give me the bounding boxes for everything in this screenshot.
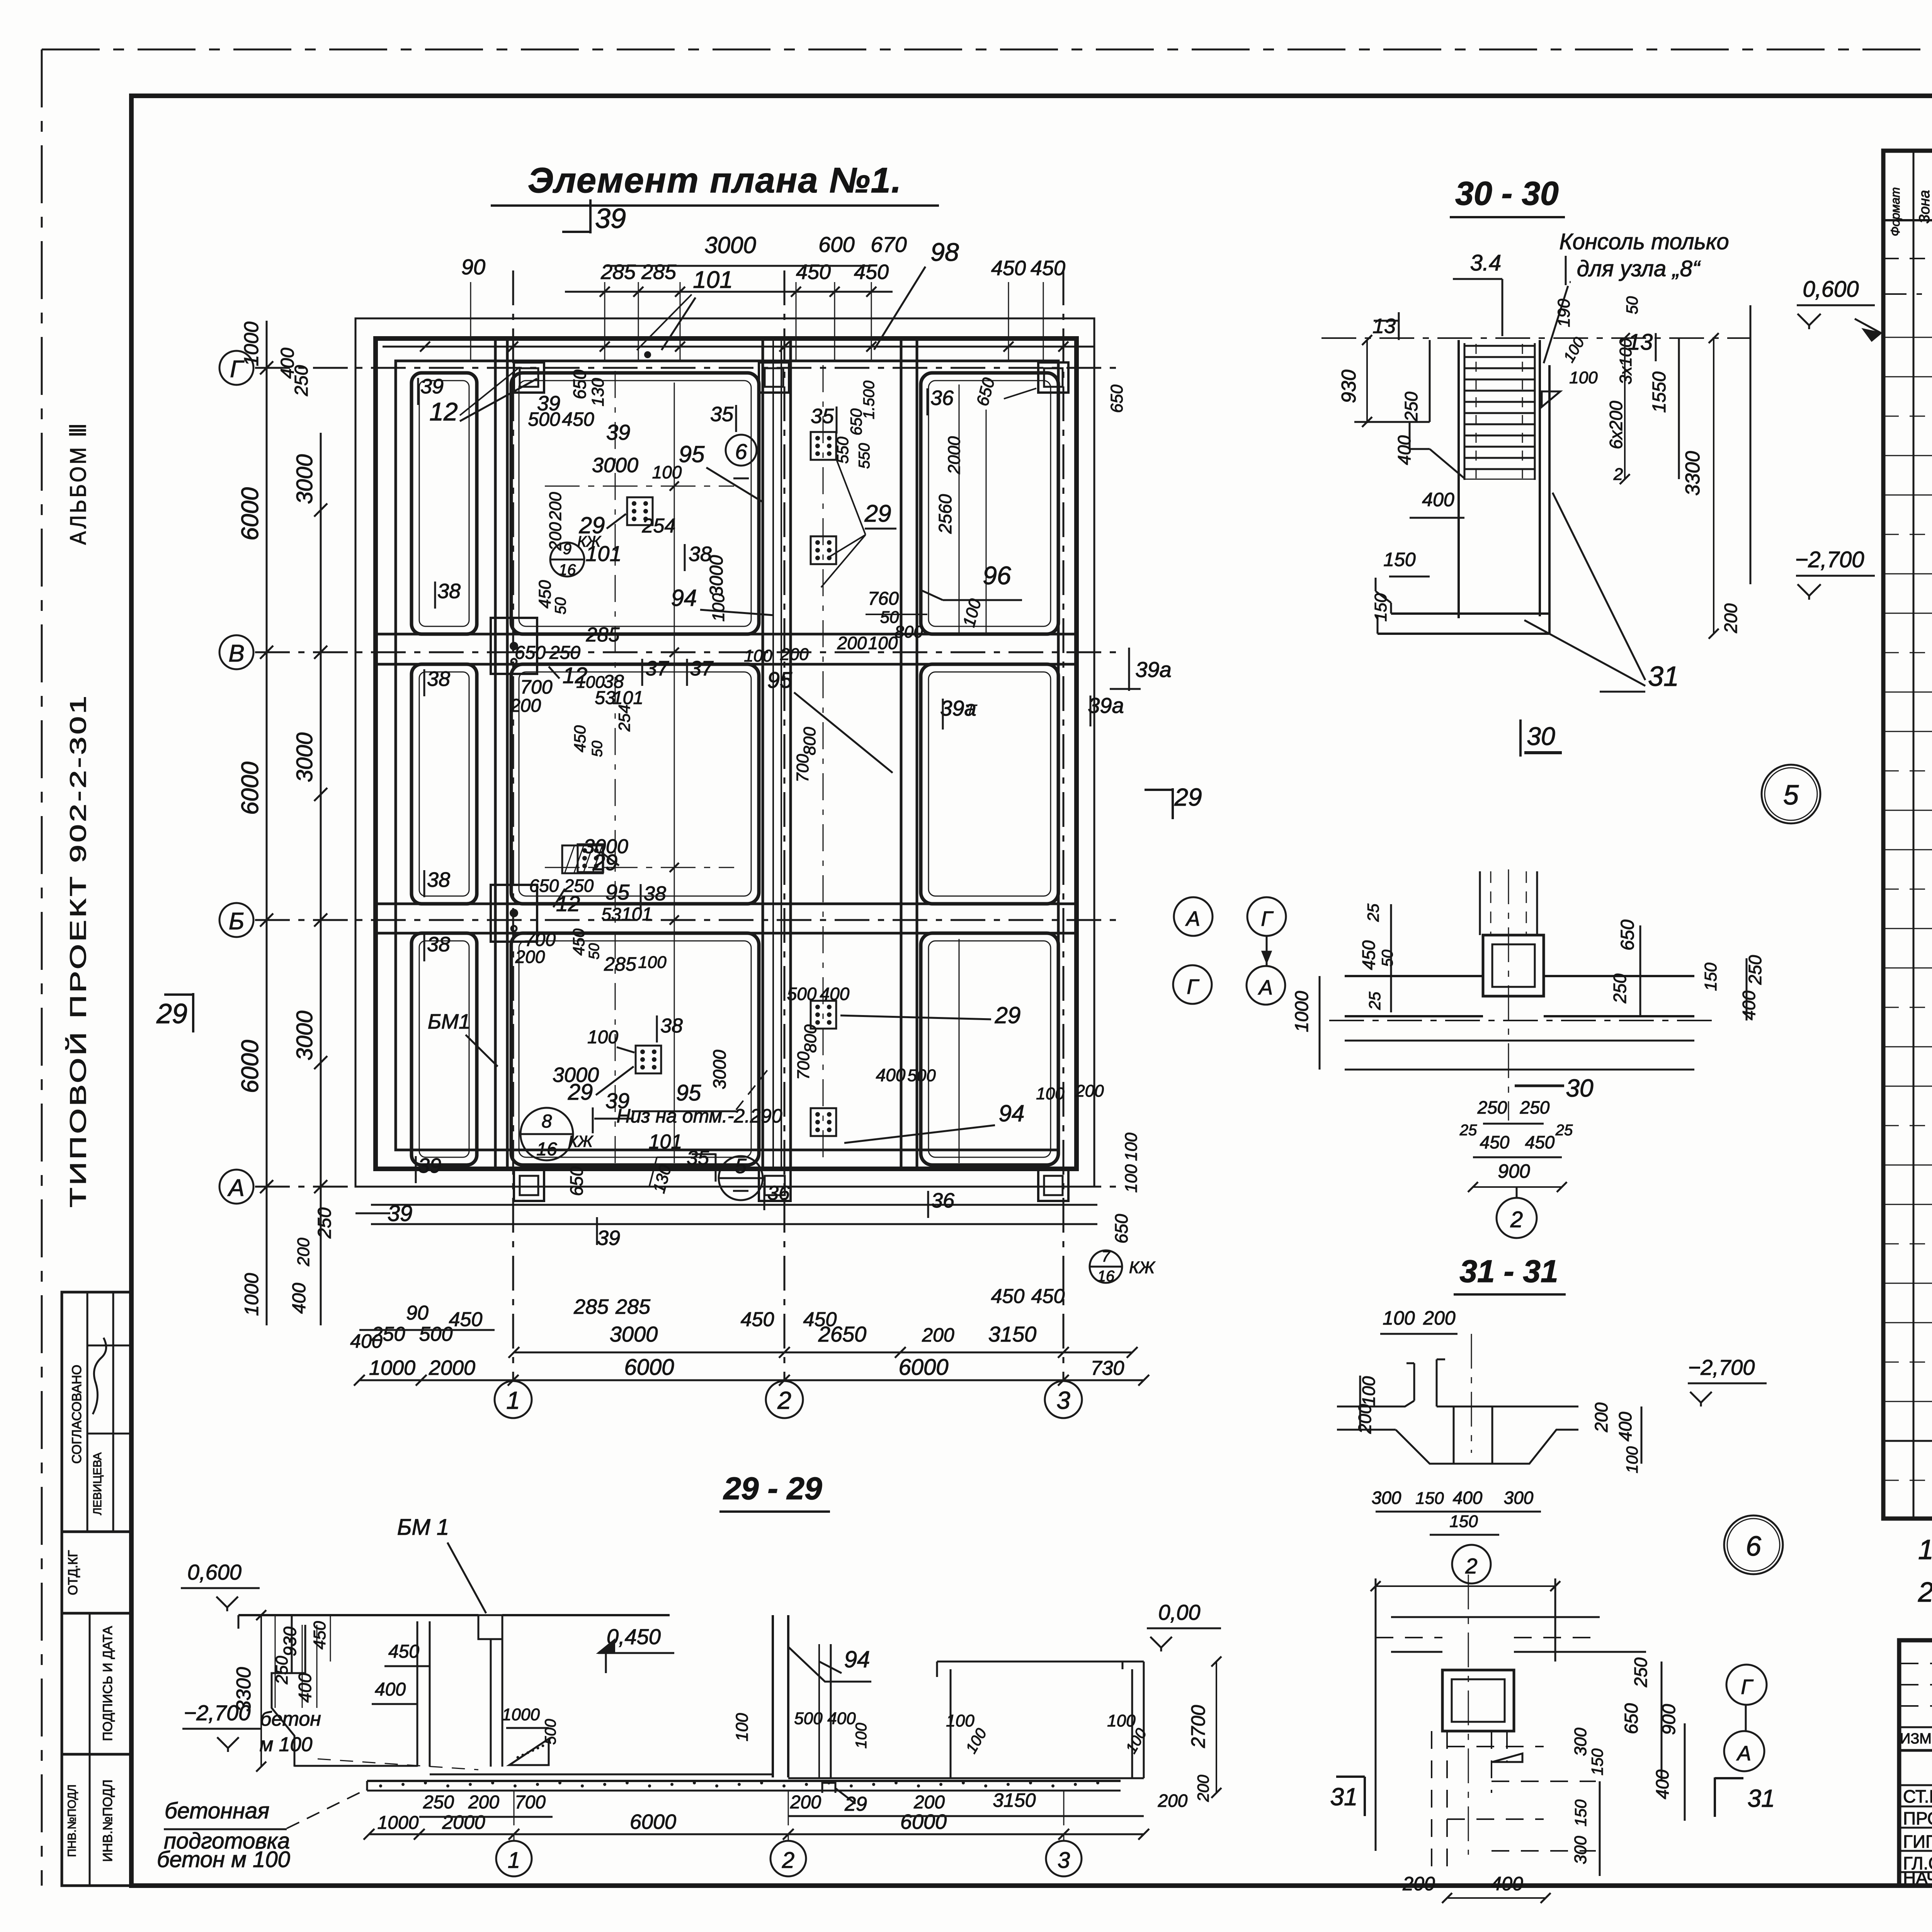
svg-text:190: 190 — [1554, 299, 1573, 327]
svg-text:30 - 30: 30 - 30 — [1455, 175, 1559, 212]
svg-text:285: 285 — [573, 1295, 609, 1318]
svg-text:650: 650 — [1111, 1214, 1131, 1243]
svg-text:200: 200 — [1721, 603, 1741, 633]
svg-text:38: 38 — [660, 1015, 683, 1037]
svg-text:6000: 6000 — [898, 1355, 948, 1380]
sidebar stamp boxes — [62, 1292, 132, 1532]
svg-text:200: 200 — [922, 1324, 954, 1346]
svg-text:450: 450 — [449, 1308, 483, 1331]
svg-text:150: 150 — [1383, 549, 1416, 570]
svg-text:450: 450 — [1480, 1132, 1510, 1152]
svg-text:50: 50 — [1623, 296, 1641, 314]
svg-text:31: 31 — [1648, 661, 1679, 692]
svg-text:⊤: ⊤ — [963, 702, 978, 719]
svg-text:250: 250 — [423, 1792, 454, 1813]
svg-text:2: 2 — [777, 1386, 791, 1414]
dirt hatch triangle — [509, 1739, 549, 1765]
svg-text:200: 200 — [1402, 1873, 1435, 1895]
svg-text:200: 200 — [546, 492, 565, 521]
svg-text:100: 100 — [853, 1723, 870, 1749]
svg-text:650: 650 — [570, 369, 590, 399]
section 30-30 body — [1321, 337, 1750, 339]
svg-text:31 - 31: 31 - 31 — [1459, 1254, 1558, 1289]
svg-text:101: 101 — [693, 267, 733, 293]
svg-text:А: А — [1736, 1742, 1751, 1765]
30 bottom marker — [1519, 719, 1522, 757]
svg-text:650: 650 — [515, 643, 546, 663]
svg-text:200: 200 — [1158, 1791, 1188, 1811]
bottom dim chains — [355, 1213, 390, 1214]
svg-text:м 100: м 100 — [260, 1733, 313, 1756]
svg-text:100: 100 — [946, 1711, 975, 1730]
svg-text:450: 450 — [1031, 1285, 1065, 1308]
svg-text:100: 100 — [1122, 1133, 1141, 1161]
left dim chain 6000 — [266, 321, 268, 1325]
29 marker in section — [822, 1783, 835, 1793]
circle 5 marker — [1762, 765, 1820, 823]
svg-text:90: 90 — [461, 255, 485, 279]
svg-text:1000: 1000 — [378, 1813, 419, 1833]
svg-text:450: 450 — [991, 257, 1026, 280]
svg-text:650: 650 — [1107, 384, 1126, 413]
svg-text:1: 1 — [508, 1848, 520, 1873]
svg-text:600: 600 — [818, 232, 854, 257]
svg-text:50: 50 — [586, 943, 602, 959]
svg-text:94: 94 — [844, 1646, 870, 1672]
svg-text:650: 650 — [1621, 1703, 1642, 1734]
svg-text:бетонная: бетонная — [165, 1798, 269, 1823]
svg-text:29: 29 — [995, 1002, 1021, 1028]
node B column box — [1442, 1670, 1514, 1731]
svg-text:25: 25 — [1459, 1122, 1477, 1139]
svg-text:35: 35 — [710, 403, 734, 426]
svg-text:100: 100 — [709, 593, 728, 622]
svg-text:101: 101 — [621, 904, 652, 925]
svg-text:400: 400 — [876, 1065, 906, 1085]
right cells — [921, 373, 1058, 634]
svg-text:6000: 6000 — [630, 1810, 676, 1833]
svg-text:200: 200 — [294, 1238, 313, 1267]
svg-text:3000: 3000 — [292, 454, 317, 504]
node B top dims — [1376, 1585, 1555, 1587]
svg-text:100: 100 — [1569, 368, 1598, 387]
31-31 profile — [1413, 1363, 1415, 1401]
svg-text:500: 500 — [419, 1323, 453, 1345]
svg-text:ИНВ.№ПОДЛ: ИНВ.№ПОДЛ — [100, 1779, 115, 1862]
horizontal axis lines — [255, 367, 1121, 369]
svg-text:ПРОВЕР.: ПРОВЕР. — [1903, 1808, 1932, 1828]
svg-text:6: 6 — [735, 439, 747, 464]
svg-text:ЛЕВИЦЕВА: ЛЕВИЦЕВА — [91, 1452, 104, 1515]
svg-text:94: 94 — [999, 1100, 1025, 1126]
svg-text:285: 285 — [641, 260, 677, 284]
svg-text:150: 150 — [1571, 1799, 1590, 1827]
svg-text:29: 29 — [864, 500, 891, 527]
embedded plates — [627, 497, 653, 525]
svg-text:250: 250 — [1610, 973, 1630, 1003]
svg-text:29 - 29: 29 - 29 — [723, 1471, 822, 1506]
node A circle 2 — [1497, 1198, 1537, 1238]
svg-text:450: 450 — [570, 928, 588, 956]
svg-text:730: 730 — [1091, 1357, 1124, 1379]
svg-text:3х100: 3х100 — [1616, 338, 1635, 384]
node B wall band — [1391, 1616, 1600, 1618]
node A column box — [1483, 935, 1544, 996]
plan outer wall face — [376, 338, 1077, 1169]
svg-text:300: 300 — [1571, 1836, 1590, 1864]
svg-text:700: 700 — [794, 1051, 813, 1080]
svg-text:39а: 39а — [1088, 693, 1124, 718]
svg-text:12: 12 — [556, 891, 580, 916]
svg-text:400: 400 — [289, 1283, 310, 1314]
svg-text:450: 450 — [854, 260, 889, 284]
svg-text:39: 39 — [606, 420, 630, 444]
svg-text:200: 200 — [913, 1792, 945, 1813]
svg-text:39а: 39а — [1135, 657, 1171, 682]
svg-text:95: 95 — [767, 668, 793, 693]
svg-text:13: 13 — [1372, 315, 1396, 338]
junction boxes bottom row — [514, 1170, 544, 1201]
svg-text:450: 450 — [310, 1621, 329, 1650]
svg-text:2650: 2650 — [818, 1322, 867, 1346]
svg-text:550: 550 — [833, 436, 852, 464]
svg-text:250: 250 — [272, 1656, 291, 1685]
svg-text:30: 30 — [1527, 722, 1555, 750]
svg-text:285: 285 — [586, 624, 620, 646]
svg-text:650: 650 — [1617, 920, 1638, 951]
29-29 floors — [294, 1765, 417, 1767]
svg-text:1550: 1550 — [1649, 371, 1670, 413]
svg-text:3: 3 — [1058, 1848, 1070, 1873]
svg-text:500: 500 — [528, 408, 560, 430]
svg-text:Консоль только: Консоль только — [1559, 229, 1729, 254]
svg-text:2700: 2700 — [1187, 1705, 1209, 1748]
svg-text:7: 7 — [1102, 1248, 1111, 1265]
svg-text:98: 98 — [930, 238, 959, 266]
svg-text:1000: 1000 — [369, 1356, 415, 1379]
svg-text:95: 95 — [679, 441, 705, 467]
svg-text:6000: 6000 — [237, 1040, 264, 1093]
svg-text:39: 39 — [597, 1226, 620, 1250]
svg-text:А: А — [227, 1175, 244, 1201]
29-29 right tank — [937, 1661, 1144, 1663]
svg-text:550: 550 — [856, 443, 873, 469]
7/16 circle bottom right — [1090, 1250, 1122, 1283]
svg-text:400: 400 — [350, 1330, 383, 1352]
svg-text:2. Армирование см. на листах: 2. Армирование см. на листах КЖ- 17, 18,… — [1918, 1577, 1932, 1608]
svg-text:100: 100 — [652, 462, 682, 482]
svg-text:100: 100 — [1122, 1164, 1141, 1193]
svg-text:100: 100 — [1383, 1307, 1415, 1329]
node A wall stub up — [1479, 871, 1481, 935]
svg-text:29: 29 — [844, 1793, 867, 1815]
svg-text:800: 800 — [800, 727, 819, 755]
svg-text:0,00: 0,00 — [1158, 1600, 1201, 1624]
wall right of corridor — [900, 338, 903, 1169]
svg-text:3.4: 3.4 — [1470, 250, 1502, 276]
section mark 39 top — [589, 199, 592, 233]
svg-text:3000: 3000 — [292, 732, 317, 782]
svg-text:25: 25 — [1366, 992, 1384, 1010]
svg-text:А: А — [1185, 907, 1200, 930]
svg-text:400: 400 — [375, 1679, 406, 1700]
svg-text:ПОДПИСЬ И ДАТА: ПОДПИСЬ И ДАТА — [100, 1626, 115, 1741]
svg-text:Элемент плана №1.: Элемент плана №1. — [528, 161, 902, 200]
svg-text:100: 100 — [733, 1713, 752, 1742]
svg-text:36: 36 — [931, 1189, 955, 1212]
svg-text:254: 254 — [642, 515, 676, 537]
svg-text:25: 25 — [1364, 903, 1382, 922]
svg-text:38: 38 — [427, 667, 450, 690]
29-29 left dim chain verticals — [275, 1615, 276, 1708]
svg-text:ГИП: ГИП — [1903, 1832, 1932, 1852]
svg-text:450: 450 — [1359, 940, 1379, 970]
axis circles 29-29 — [514, 1791, 515, 1841]
svg-text:100: 100 — [1623, 1446, 1641, 1473]
svg-text:2: 2 — [1465, 1554, 1477, 1578]
svg-text:29: 29 — [1174, 783, 1202, 811]
svg-text:53: 53 — [601, 904, 621, 924]
svg-text:38: 38 — [427, 933, 450, 956]
svg-text:СОГЛАСОВАНО: СОГЛАСОВАНО — [70, 1365, 84, 1464]
svg-text:400: 400 — [1739, 990, 1759, 1020]
svg-text:50: 50 — [1379, 950, 1396, 967]
node B hidden walls below — [1431, 1731, 1432, 1876]
svg-text:3000: 3000 — [706, 555, 727, 596]
outer dashed border — [42, 49, 1932, 51]
svg-text:450: 450 — [562, 408, 594, 430]
svg-text:450: 450 — [388, 1641, 419, 1662]
svg-text:250: 250 — [291, 365, 312, 396]
svg-text:ТИПОВОЙ ПРОЕКТ 902-2-301: ТИПОВОЙ ПРОЕКТ 902-2-301 — [66, 694, 91, 1207]
svg-text:35: 35 — [687, 1147, 709, 1169]
svg-text:700: 700 — [793, 754, 812, 782]
svg-text:250: 250 — [1631, 1657, 1651, 1687]
svg-text:450: 450 — [991, 1285, 1025, 1308]
circle 6 marker — [1724, 1515, 1783, 1574]
8/16 circle — [520, 1108, 573, 1160]
svg-text:500: 500 — [787, 984, 817, 1004]
svg-text:Формат: Формат — [1888, 187, 1902, 236]
junction boxes top row — [514, 362, 544, 393]
svg-text:300: 300 — [1571, 1728, 1590, 1756]
svg-text:3150: 3150 — [993, 1789, 1036, 1811]
svg-text:450: 450 — [536, 580, 554, 609]
svg-text:250: 250 — [315, 1207, 335, 1239]
svg-text:2000: 2000 — [429, 1356, 475, 1379]
svg-text:200: 200 — [515, 947, 545, 967]
svg-text:3: 3 — [1056, 1386, 1070, 1414]
svg-text:800: 800 — [801, 1024, 820, 1053]
svg-text:1. Данный лист см. совместно: 1. Данный лист см. совместно с листом КЖ… — [1918, 1534, 1932, 1565]
title block — [1899, 1640, 1932, 1886]
svg-text:400: 400 — [1652, 1769, 1672, 1799]
middle cells — [511, 373, 759, 634]
svg-text:16: 16 — [559, 561, 576, 578]
29-29 main profile — [238, 1614, 478, 1616]
svg-text:100: 100 — [868, 633, 898, 653]
svg-text:3000: 3000 — [610, 1322, 658, 1346]
svg-text:1000: 1000 — [1292, 991, 1312, 1032]
svg-text:250: 250 — [1745, 955, 1765, 985]
svg-text:КЖ: КЖ — [1129, 1258, 1156, 1277]
circle 6 — [726, 435, 757, 466]
svg-text:200: 200 — [510, 696, 541, 716]
plan outer slab edge — [355, 318, 1094, 1187]
svg-text:3150: 3150 — [988, 1322, 1037, 1346]
svg-text:НАЧ.ОТД: НАЧ.ОТД — [1903, 1868, 1932, 1888]
svg-text:700: 700 — [520, 676, 553, 698]
spec table grid — [1883, 151, 1932, 1519]
svg-text:95: 95 — [676, 1080, 701, 1105]
node A axis circles — [1174, 897, 1213, 936]
svg-text:200: 200 — [780, 645, 809, 664]
top dim line row 39 — [383, 346, 1094, 348]
svg-text:200: 200 — [1075, 1082, 1104, 1100]
svg-text:800: 800 — [895, 622, 923, 641]
9/16 circle — [550, 543, 584, 577]
svg-text:0,600: 0,600 — [187, 1560, 241, 1584]
svg-text:ИЗМ: ИЗМ — [1900, 1731, 1932, 1747]
svg-text:450: 450 — [741, 1308, 774, 1331]
svg-text:СТ.ИНЖ.: СТ.ИНЖ. — [1903, 1786, 1932, 1806]
svg-text:400: 400 — [1422, 489, 1454, 510]
right cells dim verticals — [959, 384, 960, 634]
svg-text:6000: 6000 — [624, 1355, 674, 1380]
svg-text:285: 285 — [615, 1295, 651, 1318]
svg-text:95: 95 — [605, 880, 630, 904]
svg-text:400: 400 — [295, 1673, 315, 1702]
svg-text:3000: 3000 — [592, 454, 638, 477]
svg-text:3300: 3300 — [1682, 451, 1704, 496]
svg-text:254: 254 — [615, 704, 633, 732]
svg-text:450: 450 — [1525, 1132, 1555, 1152]
circle 5 in plan — [719, 1156, 763, 1200]
svg-text:КЖ: КЖ — [568, 1132, 594, 1150]
svg-text:90: 90 — [406, 1302, 429, 1324]
svg-text:100: 100 — [1359, 1376, 1379, 1406]
center wall lines axis2 — [762, 338, 764, 1169]
svg-text:ПНВ.№ПОДЛ: ПНВ.№ПОДЛ — [66, 1784, 78, 1857]
svg-text:760: 760 — [868, 588, 899, 609]
svg-text:285: 285 — [604, 953, 636, 975]
svg-text:16: 16 — [1097, 1268, 1115, 1285]
svg-text:6х200: 6х200 — [1606, 401, 1626, 449]
svg-text:36: 36 — [767, 1182, 790, 1204]
svg-text:для узла „8“: для узла „8“ — [1577, 256, 1701, 281]
svg-text:Б: Б — [229, 908, 244, 935]
svg-text:31: 31 — [1330, 1783, 1357, 1811]
axis1 wall double line — [494, 338, 497, 1169]
svg-text:285: 285 — [600, 260, 636, 284]
svg-text:2560: 2560 — [935, 494, 955, 534]
svg-text:5: 5 — [735, 1155, 747, 1178]
svg-text:400: 400 — [827, 1709, 856, 1728]
svg-text:−2,700: −2,700 — [184, 1701, 251, 1725]
svg-text:250: 250 — [1477, 1097, 1507, 1117]
svg-text:ОТД.КГ: ОТД.КГ — [66, 1550, 80, 1595]
svg-text:1000: 1000 — [502, 1705, 540, 1724]
plan inner wall face — [396, 361, 1058, 1150]
svg-text:200: 200 — [790, 1792, 821, 1813]
horizontal band walls — [376, 633, 1077, 636]
svg-text:6000: 6000 — [237, 762, 264, 815]
svg-text:3000: 3000 — [553, 1063, 599, 1087]
svg-text:150: 150 — [1701, 963, 1720, 991]
svg-text:200: 200 — [468, 1792, 499, 1813]
svg-text:3000: 3000 — [704, 232, 756, 258]
svg-text:1000: 1000 — [241, 1273, 262, 1316]
svg-text:5: 5 — [1783, 780, 1799, 811]
svg-text:96: 96 — [983, 561, 1011, 590]
svg-text:0,600: 0,600 — [1803, 277, 1859, 302]
svg-text:25: 25 — [1555, 1122, 1573, 1139]
svg-text:94: 94 — [671, 585, 697, 611]
svg-text:930: 930 — [1338, 370, 1360, 403]
svg-text:400: 400 — [820, 984, 850, 1004]
svg-text:100: 100 — [1107, 1711, 1136, 1730]
600 pointer left of table — [1855, 319, 1881, 333]
svg-text:130: 130 — [588, 378, 607, 406]
svg-text:150: 150 — [1371, 593, 1390, 622]
axis1 band junction boxes — [491, 618, 537, 674]
svg-text:БМ1: БМ1 — [428, 1010, 470, 1033]
svg-text:бетон: бетон — [260, 1708, 321, 1730]
svg-text:450: 450 — [571, 725, 589, 752]
svg-text:Зона: Зона — [1917, 190, 1932, 224]
svg-text:В: В — [228, 640, 244, 667]
left dim chain 3000 — [320, 433, 322, 1325]
svg-text:37: 37 — [690, 657, 714, 680]
svg-text:Г: Г — [1187, 975, 1199, 998]
svg-text:101: 101 — [649, 1131, 682, 1153]
vertical axis lines — [512, 270, 514, 1379]
svg-text:100: 100 — [638, 953, 667, 972]
svg-text:400: 400 — [1394, 435, 1414, 465]
svg-text:101: 101 — [585, 541, 621, 566]
svg-text:450: 450 — [1031, 257, 1065, 280]
svg-text:−2,700: −2,700 — [1688, 1355, 1755, 1379]
svg-text:670: 670 — [871, 232, 906, 257]
svg-text:2: 2 — [782, 1848, 794, 1873]
svg-text:400: 400 — [1453, 1488, 1483, 1508]
svg-text:2000: 2000 — [945, 436, 964, 474]
node A 30 marker — [1515, 1085, 1564, 1087]
svg-text:2: 2 — [1613, 465, 1623, 484]
svg-text:150: 150 — [1449, 1512, 1478, 1531]
svg-text:29: 29 — [156, 998, 187, 1029]
svg-text:200: 200 — [1194, 1774, 1212, 1802]
svg-text:700: 700 — [515, 1792, 546, 1813]
interior dim vertical middle cells — [674, 384, 1157, 385]
svg-text:900: 900 — [1498, 1160, 1530, 1182]
svg-text:39: 39 — [420, 375, 444, 398]
svg-text:6000: 6000 — [900, 1810, 947, 1833]
svg-text:500: 500 — [542, 1719, 559, 1745]
svg-text:450: 450 — [796, 260, 831, 284]
svg-text:А: А — [1258, 976, 1273, 999]
svg-text:38: 38 — [427, 868, 450, 891]
svg-text:400: 400 — [1615, 1412, 1635, 1441]
svg-text:400: 400 — [1491, 1873, 1523, 1895]
svg-text:−2,700: −2,700 — [1795, 547, 1864, 572]
svg-text:250: 250 — [1520, 1097, 1550, 1117]
svg-text:Г: Г — [1261, 907, 1274, 930]
svg-text:35: 35 — [811, 405, 834, 428]
left cells — [412, 373, 477, 634]
node B axis circles — [1726, 1665, 1767, 1705]
svg-text:39: 39 — [595, 203, 626, 234]
